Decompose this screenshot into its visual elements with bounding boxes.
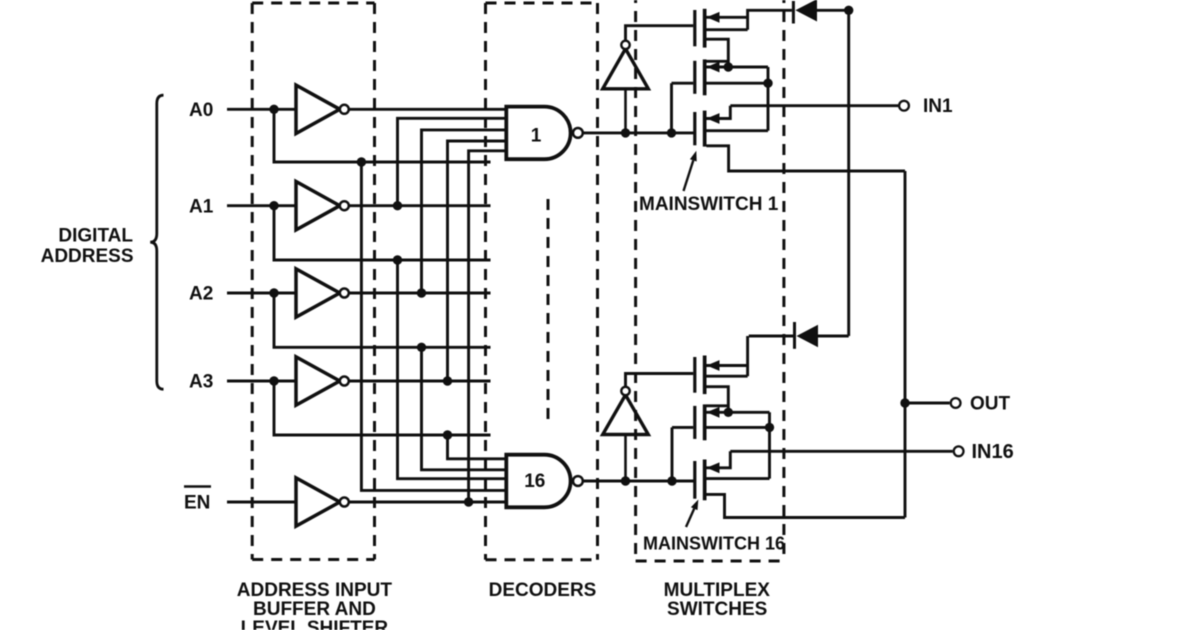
svg-text:A1: A1 (189, 196, 214, 217)
svg-text:16: 16 (524, 471, 545, 492)
svg-text:OUT: OUT (970, 394, 1011, 415)
svg-text:DECODERS: DECODERS (489, 580, 597, 601)
svg-text:LEVEL SHIFTER: LEVEL SHIFTER (241, 618, 389, 630)
svg-text:SWITCHES: SWITCHES (667, 599, 767, 620)
svg-text:1: 1 (531, 126, 542, 147)
svg-text:IN16: IN16 (972, 441, 1014, 463)
svg-text:MULTIPLEX: MULTIPLEX (664, 580, 771, 601)
svg-text:DIGITAL: DIGITAL (58, 225, 133, 246)
svg-text:EN: EN (184, 493, 210, 514)
svg-text:A3: A3 (189, 372, 213, 393)
svg-text:A0: A0 (189, 100, 213, 121)
svg-text:MAINSWITCH 16: MAINSWITCH 16 (643, 533, 785, 553)
svg-text:ADDRESS INPUT: ADDRESS INPUT (237, 580, 393, 601)
svg-text:A2: A2 (189, 284, 213, 305)
svg-text:ADDRESS: ADDRESS (41, 246, 134, 267)
svg-text:MAINSWITCH 1: MAINSWITCH 1 (639, 194, 779, 215)
svg-text:IN1: IN1 (923, 96, 953, 117)
